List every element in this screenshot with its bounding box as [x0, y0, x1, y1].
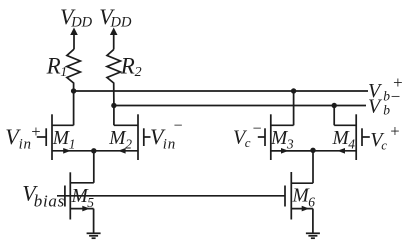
- svg-text:2: 2: [135, 65, 142, 80]
- svg-text:DD: DD: [110, 15, 132, 31]
- svg-text:V: V: [368, 95, 383, 117]
- svg-text:1: 1: [60, 65, 67, 80]
- svg-text:−: −: [390, 87, 401, 106]
- svg-text:2: 2: [125, 136, 132, 151]
- svg-text:in: in: [163, 136, 176, 152]
- svg-text:−: −: [173, 118, 184, 135]
- svg-text:4: 4: [348, 136, 355, 151]
- svg-text:3: 3: [286, 136, 294, 151]
- svg-text:DD: DD: [70, 15, 92, 31]
- svg-text:bias: bias: [34, 192, 65, 211]
- svg-text:+: +: [389, 121, 400, 140]
- svg-text:1: 1: [69, 136, 76, 151]
- svg-text:c: c: [381, 138, 387, 153]
- svg-text:R: R: [46, 53, 61, 78]
- svg-text:6: 6: [308, 195, 315, 210]
- svg-text:c: c: [245, 135, 251, 150]
- svg-text:−: −: [252, 121, 263, 138]
- svg-text:5: 5: [87, 195, 94, 210]
- svg-text:+: +: [30, 122, 41, 141]
- svg-text:R: R: [120, 53, 135, 78]
